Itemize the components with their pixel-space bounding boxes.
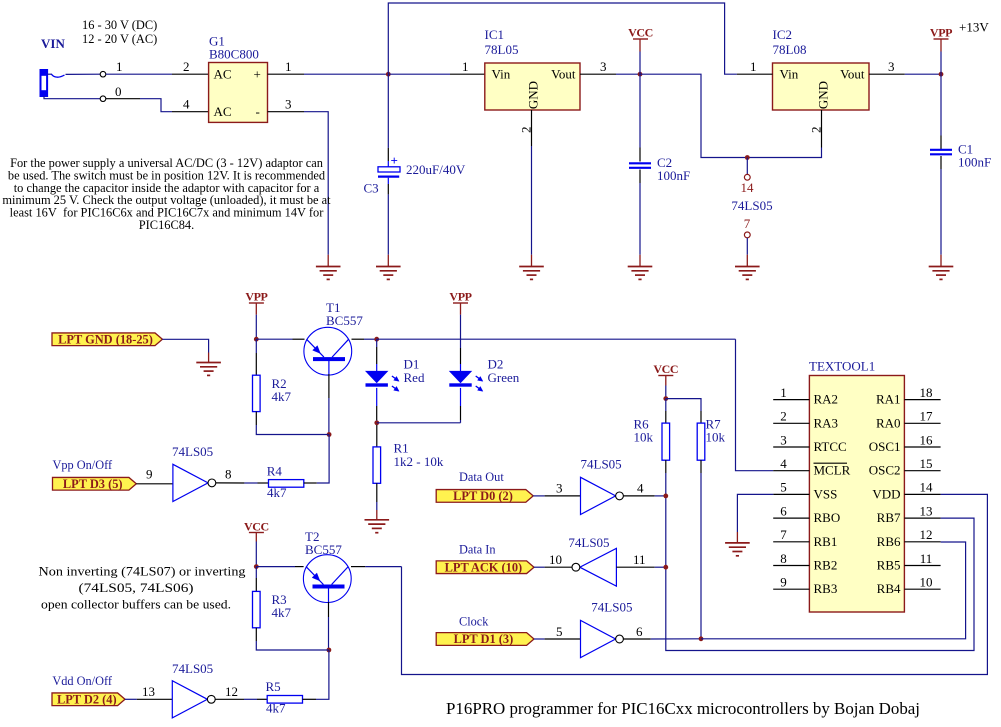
pin 13 of gate E [137, 698, 173, 700]
svg-text:8: 8 [780, 551, 787, 566]
svg-text:LPT D2 (4): LPT D2 (4) [57, 693, 117, 707]
svg-text:4k7: 4k7 [267, 485, 287, 500]
svg-text:10k: 10k [634, 430, 654, 445]
node rectifier output junction [386, 72, 391, 77]
svg-text:2: 2 [780, 409, 787, 424]
svg-text:7: 7 [744, 216, 751, 231]
svg-text:LPT ACK (10): LPT ACK (10) [445, 560, 523, 574]
svg-text:2: 2 [183, 59, 190, 74]
svg-text:VPP: VPP [245, 290, 267, 304]
wire [616, 73, 640, 75]
svg-text:LPT GND (18-25): LPT GND (18-25) [58, 333, 153, 347]
pin 12 RB6 of TEXTOOL1 [904, 541, 940, 543]
wire [940, 74, 942, 135]
pin 6 of gate D [623, 638, 650, 640]
svg-text:6: 6 [636, 624, 643, 639]
pin collector T1 [352, 338, 365, 340]
svg-text:3: 3 [556, 481, 563, 496]
svg-text:12: 12 [225, 684, 238, 699]
wire [905, 73, 941, 75]
svg-text:RB2: RB2 [814, 558, 838, 573]
pin 1 of G1 [268, 73, 305, 75]
pin 15 OSC2 of TEXTOOL1 [904, 470, 940, 472]
svg-text:74LS05: 74LS05 [591, 600, 632, 615]
wire [328, 398, 330, 435]
wire clock line [651, 638, 701, 640]
wire to MCLR [736, 339, 774, 471]
svg-text:RA2: RA2 [814, 392, 839, 407]
svg-text:open collector buffers can be: open collector buffers can be used. [41, 596, 231, 611]
pin of R5 [257, 698, 267, 700]
node data out junction [663, 494, 668, 499]
svg-text:5: 5 [556, 624, 563, 639]
pin 18 RA1 of TEXTOOL1 [904, 399, 940, 401]
wire [531, 146, 533, 255]
capacitor C2 100nF [629, 162, 651, 164]
svg-text:VSS: VSS [814, 486, 838, 501]
pin 1 of IC2 [737, 73, 773, 75]
pin 11 RB5 of TEXTOOL1 [904, 565, 940, 567]
svg-text:3: 3 [780, 432, 787, 447]
svg-text:5: 5 [780, 480, 787, 495]
wire [533, 495, 544, 497]
wire [244, 698, 257, 700]
svg-text:1: 1 [285, 59, 292, 74]
wire [387, 74, 389, 148]
ground VSS [725, 542, 750, 544]
pin 3 of G1 [268, 111, 305, 113]
svg-text:3: 3 [285, 97, 292, 112]
pin 17 RA0 of TEXTOOL1 [904, 422, 940, 424]
svg-text:10: 10 [549, 552, 562, 567]
svg-text:GND: GND [526, 81, 541, 109]
wire [655, 566, 666, 568]
port LPT GND (18-25) [52, 333, 162, 346]
node VPP junction [939, 72, 944, 77]
ground C2 [628, 266, 653, 268]
port LPT D1 (3) [436, 633, 534, 646]
svg-text:Vout: Vout [840, 67, 865, 82]
svg-text:Vout: Vout [551, 67, 576, 82]
svg-text:C3: C3 [364, 181, 379, 196]
svg-text:1k2 - 10k: 1k2 - 10k [394, 454, 444, 469]
switch contact 1 [100, 71, 106, 77]
wire [328, 617, 330, 650]
svg-text:12: 12 [920, 527, 933, 542]
svg-text:6: 6 [780, 503, 787, 518]
wire [162, 339, 208, 352]
wire [460, 420, 462, 423]
svg-text:4k7: 4k7 [272, 605, 292, 620]
wire [388, 73, 450, 75]
wire VPP rail right [377, 338, 736, 340]
svg-text:9: 9 [146, 467, 153, 482]
pin of R5 right [303, 698, 317, 700]
svg-text:1: 1 [462, 59, 469, 74]
node R3/R5 base junction [327, 648, 332, 653]
pin 3 RTCC of TEXTOOL1 [773, 446, 809, 448]
svg-text:100nF: 100nF [657, 168, 690, 183]
svg-text:VCC: VCC [653, 362, 678, 376]
resistor R3 4k7 [255, 567, 257, 578]
svg-text:LPT D1 (3): LPT D1 (3) [454, 632, 514, 646]
ground C1 [929, 266, 954, 268]
svg-text:RTCC: RTCC [814, 439, 847, 454]
wire [655, 495, 666, 497]
svg-text:RA3: RA3 [814, 415, 839, 430]
wire [304, 73, 388, 75]
svg-text:4: 4 [637, 481, 644, 496]
svg-text:78L05: 78L05 [485, 42, 519, 57]
transistor T2 BC557 [303, 555, 351, 603]
svg-text:1: 1 [750, 59, 757, 74]
socket TEXTOOL1 body [809, 376, 904, 613]
svg-text:AC: AC [214, 67, 232, 82]
pin 4 MCLR of TEXTOOL1 [773, 470, 809, 472]
svg-text:4k7: 4k7 [272, 389, 292, 404]
pin 14 VDD of TEXTOOL1 [904, 493, 940, 495]
wire [106, 73, 172, 75]
svg-text:1: 1 [116, 59, 123, 74]
ground G1 minus [316, 266, 341, 268]
pin 5 VSS of TEXTOOL1 [773, 493, 809, 495]
pin 7 RB1 of TEXTOOL1 [773, 541, 809, 543]
wire [639, 183, 641, 255]
svg-text:13: 13 [142, 684, 155, 699]
svg-text:2: 2 [809, 127, 824, 134]
svg-text:LPT D0 (2): LPT D0 (2) [453, 489, 513, 503]
wire [256, 641, 329, 650]
svg-text:RA1: RA1 [876, 392, 901, 407]
svg-text:RB7: RB7 [877, 510, 901, 525]
pin 1 of IC1 [450, 73, 485, 75]
pin 3 of gate B [545, 495, 581, 497]
svg-text:PIC16C84.: PIC16C84. [139, 218, 194, 232]
svg-text:+: + [254, 67, 261, 82]
wire [317, 435, 329, 484]
svg-text:Red: Red [404, 370, 425, 385]
wire VCC to IC2 GND net [640, 74, 822, 157]
svg-text:16 - 30 V (DC): 16 - 30 V (DC) [82, 18, 157, 32]
svg-text:Data Out: Data Out [459, 470, 504, 484]
wire [940, 52, 942, 75]
node data in junction [663, 565, 668, 570]
svg-text:17: 17 [920, 409, 934, 424]
wire [304, 112, 328, 255]
pin 11 of gate C [616, 566, 654, 568]
wire clock to RB6 [701, 542, 966, 639]
wire [376, 502, 378, 510]
svg-text:10: 10 [920, 575, 933, 590]
resistor R2 4k7 [255, 339, 257, 353]
svg-text:RB4: RB4 [877, 581, 901, 596]
svg-text:R4: R4 [267, 463, 283, 478]
wire [48, 73, 52, 75]
svg-text:VPP: VPP [449, 290, 471, 304]
wire [66, 73, 101, 75]
pin 9 of 74LS05 gate A [136, 483, 173, 485]
wire [364, 338, 377, 340]
svg-text:7: 7 [780, 527, 787, 542]
svg-text:15: 15 [920, 456, 933, 471]
wire [377, 422, 461, 424]
wire [316, 650, 329, 699]
wire [44, 96, 100, 99]
svg-text:IC1: IC1 [485, 27, 505, 42]
pin emitter T2 [295, 566, 304, 568]
svg-text:(74LS05, 74LS06): (74LS05, 74LS06) [79, 580, 194, 595]
svg-text:Vdd On/Off: Vdd On/Off [52, 674, 112, 688]
pin 8 of gate A [216, 482, 245, 484]
pin collector T2 [351, 566, 365, 568]
svg-text:74LS05: 74LS05 [731, 198, 772, 213]
svg-text:RB1: RB1 [814, 534, 838, 549]
wire [534, 638, 545, 640]
svg-text:74LS05: 74LS05 [172, 661, 213, 676]
svg-text:IC2: IC2 [773, 27, 793, 42]
pin 1 RA2 of TEXTOOL1 [773, 399, 809, 401]
svg-text:VPP: VPP [930, 26, 952, 40]
svg-text:+13V: +13V [959, 20, 989, 35]
svg-text:VDD: VDD [872, 486, 900, 501]
svg-text:+: + [391, 153, 398, 168]
bridge rectifier G1 B80C800 [209, 63, 268, 123]
svg-text:3: 3 [600, 59, 607, 74]
svg-text:78L08: 78L08 [773, 42, 807, 57]
svg-text:Clock: Clock [459, 615, 489, 629]
svg-text:14: 14 [741, 180, 755, 195]
connector J1 VIN plug [41, 70, 48, 96]
pin 2 RA3 of TEXTOOL1 [773, 422, 809, 424]
resistor R5 4k7 [267, 696, 302, 704]
pin 2 of IC1 GND [531, 110, 533, 146]
wire [940, 169, 942, 255]
wire [255, 315, 257, 340]
port LPT D0 (2) [436, 490, 533, 503]
svg-text:RBO: RBO [814, 510, 841, 525]
svg-text:11: 11 [920, 551, 933, 566]
svg-text:VCC: VCC [628, 26, 653, 40]
74LS05 power pin 14 [746, 158, 748, 175]
pin 2 of G1 [172, 73, 209, 75]
svg-text:OSC2: OSC2 [869, 463, 901, 478]
svg-text:11: 11 [633, 552, 646, 567]
wire [639, 74, 641, 147]
svg-text:74LS05: 74LS05 [581, 457, 622, 472]
pin 6 RBO of TEXTOOL1 [773, 517, 809, 519]
ground C3 [376, 266, 401, 268]
node 74LS05 power junction [745, 155, 750, 160]
port LPT D2 (4) [52, 693, 125, 706]
pin 3 of IC2 [869, 73, 905, 75]
svg-text:OSC1: OSC1 [869, 439, 901, 454]
wire [534, 566, 545, 568]
pin base T2 [328, 588, 330, 603]
svg-text:1: 1 [780, 385, 787, 400]
svg-text:74LS05: 74LS05 [568, 535, 609, 550]
svg-text:RB6: RB6 [877, 534, 901, 549]
pin 10 of gate C [545, 566, 572, 568]
wire [256, 425, 329, 435]
wire [639, 52, 641, 75]
svg-text:-: - [256, 104, 260, 119]
svg-text:0: 0 [115, 84, 122, 99]
pin 5 of gate D [545, 638, 581, 640]
ground LPT GND [196, 362, 221, 364]
svg-text:LPT D3 (5): LPT D3 (5) [63, 477, 123, 491]
regulator IC1 78L05 [485, 63, 580, 110]
pin base T1 [328, 360, 330, 374]
wire VSS to ground [737, 494, 773, 532]
svg-text:74LS05: 74LS05 [172, 444, 213, 459]
svg-text:Non inverting (74LS07) or inve: Non inverting (74LS07) or inverting [39, 564, 247, 579]
resistor R1 1k2-10k [376, 425, 378, 447]
svg-text:VCC: VCC [244, 520, 269, 534]
node VCC T2 junction [254, 564, 259, 569]
svg-text:RA0: RA0 [876, 415, 901, 430]
wire [125, 698, 137, 700]
pin 13 RB7 of TEXTOOL1 [904, 517, 940, 519]
capacitor C1 100nF [930, 149, 952, 151]
svg-text:8: 8 [225, 467, 232, 482]
svg-text:2: 2 [519, 127, 534, 134]
pin 10 RB4 of TEXTOOL1 [904, 588, 940, 590]
svg-text:AC: AC [214, 104, 232, 119]
wire T2 collector Vdd line [365, 566, 401, 568]
wire [255, 542, 257, 567]
svg-text:Vin: Vin [780, 67, 799, 82]
wire [376, 420, 378, 423]
node VPP rail junction [254, 337, 259, 342]
pin 4 of gate B [623, 495, 654, 497]
svg-text:4: 4 [780, 456, 787, 471]
pin 3 of IC1 [580, 73, 616, 75]
svg-text:P16PRO programmer for PIC16Cxx: P16PRO programmer for PIC16Cxx microcont… [446, 699, 920, 718]
node R2/R4 base junction [327, 432, 332, 437]
svg-text:9: 9 [780, 575, 787, 590]
svg-text:3: 3 [888, 59, 895, 74]
pin of R4 [258, 482, 269, 484]
pin emitter T1 [293, 338, 305, 340]
resistor R7 10k [666, 399, 701, 411]
svg-text:16: 16 [920, 432, 934, 447]
wire R7 down to clock line [700, 473, 702, 639]
svg-text:4k7: 4k7 [266, 701, 286, 716]
pin 8 RB2 of TEXTOOL1 [773, 565, 809, 567]
resistor R4 4k7 [269, 480, 304, 488]
wire [387, 194, 389, 254]
svg-text:4: 4 [183, 97, 190, 112]
resistor R6 10k [665, 399, 667, 411]
svg-text:BC557: BC557 [305, 542, 342, 557]
diode D1 Red LED [376, 339, 378, 347]
pin 2 of IC2 GND [821, 110, 823, 148]
transistor T1 BC557 [304, 327, 352, 375]
pin of R4 right [304, 482, 317, 484]
switch contact 0 [100, 96, 106, 102]
svg-text:100nF: 100nF [958, 154, 991, 169]
svg-text:MCLR: MCLR [814, 463, 851, 478]
wire top feed rail to IC2 [388, 3, 737, 74]
ground R1 [365, 519, 390, 521]
wire [665, 386, 667, 399]
svg-text:VIN: VIN [41, 36, 65, 51]
wire R6 to RB7 line [666, 473, 974, 651]
port LPT ACK (10) [436, 561, 534, 574]
regulator IC2 78L08 [773, 63, 870, 110]
svg-text:12 - 20 V (AC): 12 - 20 V (AC) [82, 32, 157, 46]
node VCC junction [638, 72, 643, 77]
port LPT D3 (5) [53, 477, 137, 490]
svg-text:TEXTOOL1: TEXTOOL1 [809, 359, 875, 374]
diode D2 Green LED [460, 348, 462, 364]
wire [244, 482, 257, 484]
wire VPP rail [256, 338, 292, 340]
wire [256, 566, 295, 568]
svg-text:10k: 10k [706, 430, 726, 445]
svg-text:13: 13 [920, 503, 933, 518]
svg-text:Vpp On/Off: Vpp On/Off [53, 458, 113, 472]
pin 16 OSC1 of TEXTOOL1 [904, 446, 940, 448]
pin 12 of gate E [215, 698, 244, 700]
svg-text:R5: R5 [266, 679, 281, 694]
svg-text:RB3: RB3 [814, 581, 838, 596]
node D1 cathode junction [374, 420, 379, 425]
svg-text:14: 14 [920, 480, 934, 495]
node clock junction R7 [699, 636, 704, 641]
wire [460, 315, 462, 348]
switch S1 blade [52, 74, 65, 77]
svg-text:Data In: Data In [459, 543, 496, 557]
svg-text:220uF/40V: 220uF/40V [406, 162, 466, 177]
ground IC1 [519, 266, 544, 268]
svg-text:RB5: RB5 [877, 558, 901, 573]
pin 4 of G1 [172, 111, 209, 113]
svg-text:Vin: Vin [492, 67, 511, 82]
svg-text:Green: Green [488, 370, 520, 385]
svg-text:18: 18 [920, 385, 933, 400]
ground 74LS05 [735, 266, 760, 268]
wire [106, 98, 140, 100]
svg-text:BC557: BC557 [326, 313, 363, 328]
svg-text:GND: GND [816, 81, 831, 109]
node D1 anode junction [374, 337, 379, 342]
node VCC pullup junction [663, 396, 668, 401]
pin 9 RB3 of TEXTOOL1 [773, 588, 809, 590]
svg-text:B80C800: B80C800 [209, 47, 259, 62]
